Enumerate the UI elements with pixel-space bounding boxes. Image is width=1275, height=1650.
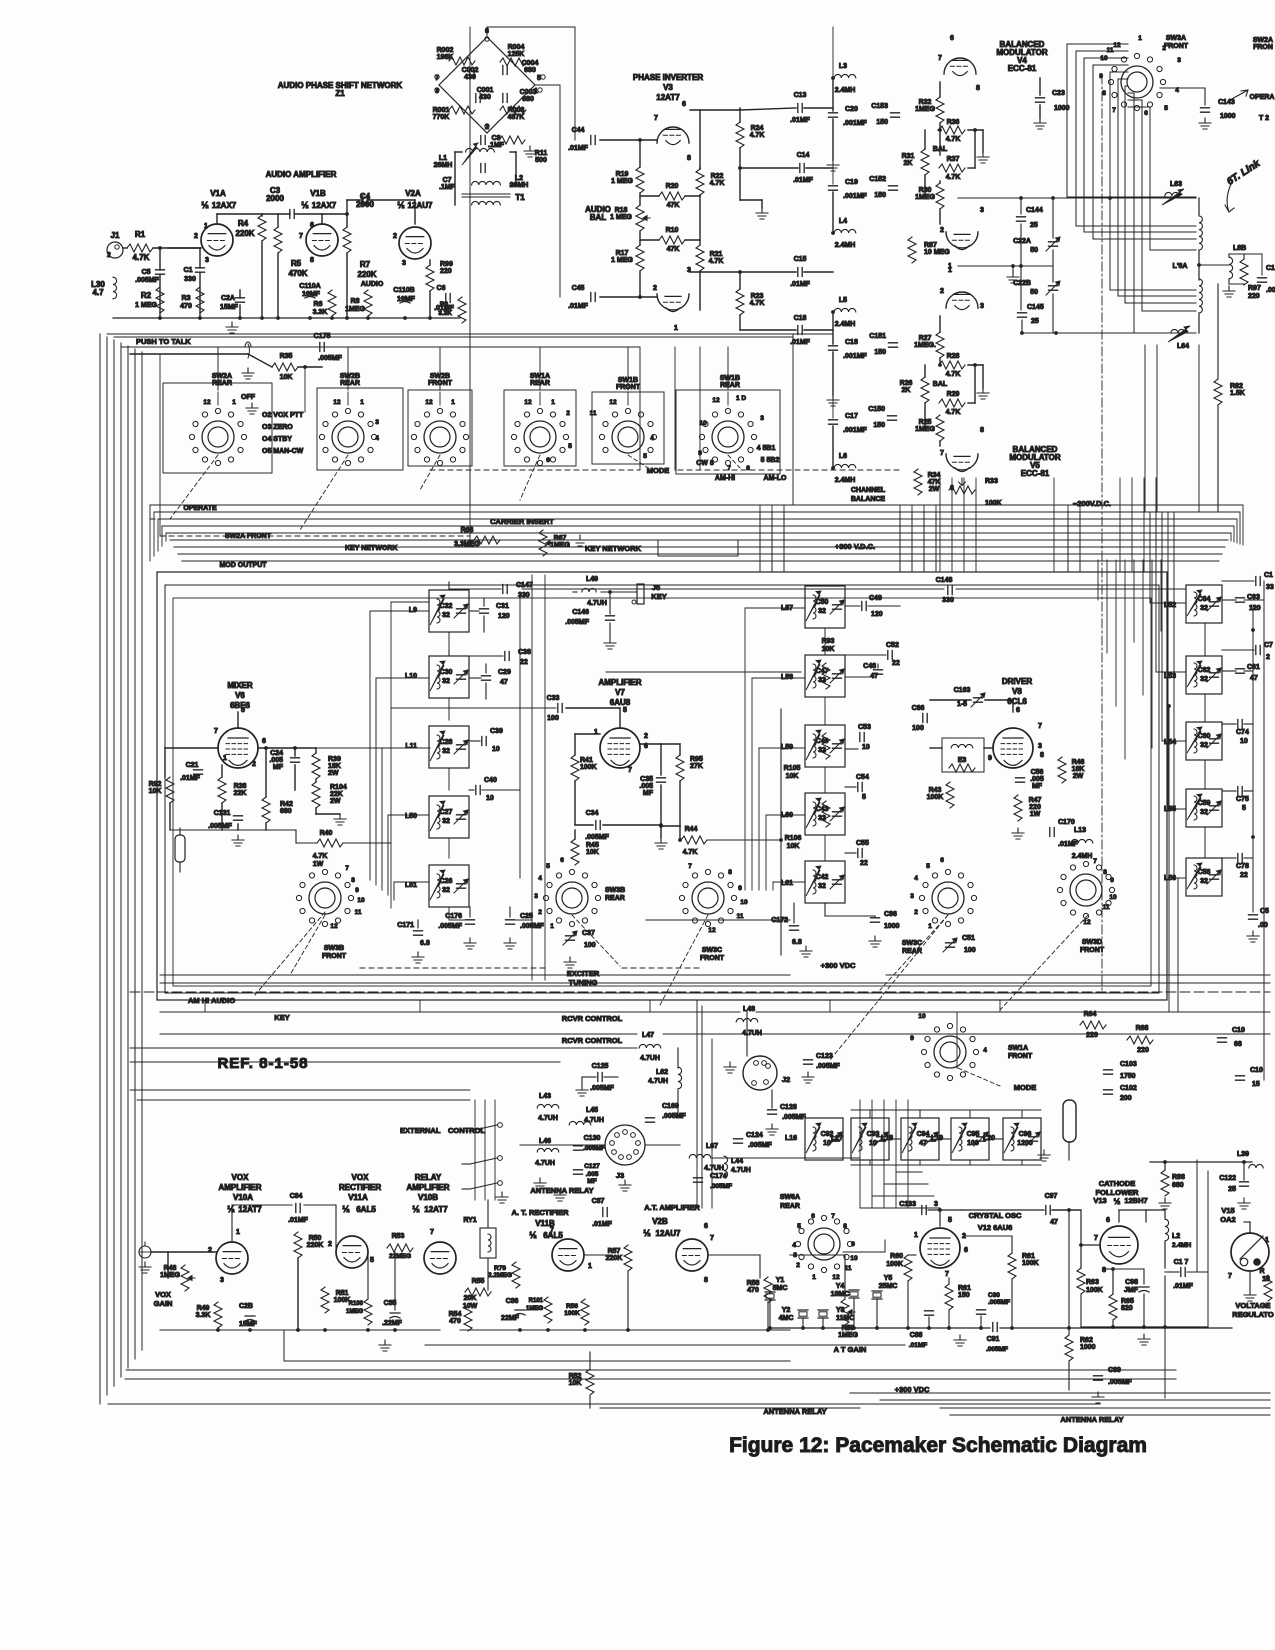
svg-text:5: 5 — [1164, 105, 1168, 112]
wire — [304, 367, 306, 412]
svg-text:2K: 2K — [904, 160, 913, 167]
triode V10A — [216, 1242, 248, 1274]
capacitor C79 — [1256, 646, 1260, 655]
svg-text:.00: .00 — [1266, 287, 1275, 294]
svg-text:C52: C52 — [886, 642, 899, 649]
wire bottom horiz stub — [884, 1183, 928, 1185]
svg-text:.005MF: .005MF — [662, 1113, 686, 1120]
svg-text:25: 25 — [1031, 318, 1039, 325]
svg-text:C31: C31 — [496, 603, 509, 610]
svg-text:15MF: 15MF — [239, 1321, 258, 1328]
socket J2 — [743, 1056, 777, 1090]
svg-text:V8: V8 — [1012, 687, 1022, 696]
svg-text:C2B: C2B — [239, 1303, 253, 1310]
svg-text:1MEG: 1MEG — [345, 306, 365, 313]
svg-text:R: R — [1259, 1268, 1264, 1275]
svg-text:10: 10 — [1109, 894, 1117, 901]
pentode V8 — [993, 728, 1033, 768]
resistor R61 — [1008, 1253, 1016, 1279]
wire far right vertical 1169 — [1168, 706, 1170, 1012]
capacitor C172 — [790, 926, 799, 930]
svg-text:47: 47 — [1250, 675, 1258, 682]
wire — [315, 808, 317, 814]
capacitor C85 — [390, 1313, 400, 1318]
bus bottom 3 — [125, 1378, 1176, 1380]
bus wire network — [174, 546, 1225, 548]
resistor R28 — [939, 361, 965, 369]
wire vertical mid — [1067, 505, 1069, 572]
svg-text:C103: C103 — [1120, 1061, 1137, 1068]
svg-text:4.7UH: 4.7UH — [538, 1115, 558, 1122]
bus wire vertical left — [127, 346, 129, 1368]
svg-text:150: 150 — [874, 349, 886, 356]
svg-text:8: 8 — [1040, 752, 1044, 759]
svg-text:C8: C8 — [492, 135, 501, 142]
svg-text:100K: 100K — [564, 1310, 580, 1317]
svg-text:2.2MEG: 2.2MEG — [488, 1272, 512, 1279]
capacitor C1 — [196, 268, 205, 272]
svg-text:V1B: V1B — [310, 189, 326, 198]
wire sw3c fan vertical — [744, 608, 746, 890]
svg-text:Y4: Y4 — [836, 1283, 845, 1290]
svg-text:10: 10 — [357, 897, 365, 904]
svg-text:L10: L10 — [405, 673, 417, 680]
ground R104 — [334, 814, 346, 825]
svg-text:.00: .00 — [1258, 922, 1268, 929]
pentode V12 — [920, 1228, 960, 1268]
wire vertical mid — [911, 505, 913, 572]
svg-text:12AX7: 12AX7 — [212, 201, 237, 210]
svg-text:T 2: T 2 — [1259, 115, 1269, 122]
svg-text:3: 3 — [980, 207, 984, 214]
svg-text:470K: 470K — [288, 269, 307, 278]
svg-text:4.7K: 4.7K — [133, 253, 150, 262]
wire to L8B — [1199, 264, 1229, 266]
relay coil RY1 — [488, 1234, 491, 1252]
svg-text:C95: C95 — [967, 1131, 980, 1138]
svg-text:1W: 1W — [313, 861, 324, 868]
wire sw3c fan stub — [759, 747, 805, 749]
wire L8B top — [1229, 253, 1244, 255]
svg-text:22K: 22K — [330, 791, 343, 798]
svg-text:220: 220 — [1137, 1047, 1149, 1054]
svg-text:AM HI AUDIO: AM HI AUDIO — [188, 996, 235, 1005]
svg-text:5: 5 — [1242, 805, 1246, 812]
tank L58 — [805, 655, 845, 697]
wire vertical 702 — [701, 1006, 703, 1208]
svg-text:6: 6 — [1106, 1217, 1110, 1224]
svg-text:8: 8 — [976, 85, 980, 92]
resistor R66 — [474, 536, 500, 544]
wire — [740, 167, 798, 169]
wire — [739, 108, 741, 122]
svg-text:.01MF: .01MF — [288, 1217, 309, 1224]
capacitor C7 — [481, 164, 485, 173]
svg-text:20K: 20K — [464, 1295, 477, 1302]
capacitor C52 — [888, 651, 892, 660]
svg-text:4.7K: 4.7K — [946, 136, 961, 143]
svg-text:REAR: REAR — [780, 1203, 800, 1210]
svg-text:V2A: V2A — [405, 189, 421, 198]
ground C146 — [604, 638, 616, 649]
svg-text:A. T. RECTIFIER: A. T. RECTIFIER — [511, 1208, 569, 1217]
svg-text:.005MF: .005MF — [1108, 1379, 1132, 1386]
svg-text:L9: L9 — [409, 607, 417, 614]
svg-text:.005: .005 — [639, 783, 653, 790]
inductor L49 — [582, 588, 596, 592]
svg-text:487K: 487K — [508, 114, 525, 121]
capacitor C17 — [829, 420, 838, 424]
svg-text:C130: C130 — [584, 1135, 601, 1142]
wire far right vertical 1178 — [1177, 878, 1179, 1012]
wire sw3c fan stub — [773, 881, 805, 883]
wire — [939, 130, 941, 155]
capacitor C48 — [874, 670, 883, 674]
svg-text:C74: C74 — [1236, 729, 1249, 736]
resistor R105 — [822, 733, 830, 759]
svg-text:3: 3 — [1177, 57, 1181, 64]
svg-text:7: 7 — [430, 1229, 434, 1236]
svg-text:.1MF: .1MF — [488, 142, 505, 149]
wire — [221, 765, 223, 777]
wire — [297, 1258, 299, 1330]
wire C97 to grid — [1052, 1209, 1081, 1211]
wire J3 right — [645, 1144, 680, 1146]
wire vertical mid — [923, 505, 925, 572]
svg-text:10: 10 — [492, 746, 500, 753]
svg-text:.005MF: .005MF — [986, 1346, 1008, 1353]
svg-text:.005: .005 — [269, 757, 283, 764]
wire — [469, 907, 471, 917]
svg-text:32: 32 — [818, 883, 826, 890]
svg-text:5: 5 — [797, 1223, 801, 1230]
svg-text:R001: R001 — [433, 107, 450, 114]
svg-text:C86: C86 — [884, 911, 897, 918]
wire — [237, 824, 239, 830]
svg-text:C59: C59 — [1198, 800, 1211, 807]
capacitor C66 — [923, 714, 927, 723]
wire — [968, 167, 975, 169]
resistor R9 — [458, 297, 466, 323]
capacitor C44 — [591, 136, 595, 145]
capacitor C004 — [503, 66, 507, 75]
wire vertical 391 — [390, 602, 392, 908]
svg-text:L11: L11 — [405, 743, 417, 750]
wire SW3A bundle — [1125, 86, 1196, 303]
svg-text:10: 10 — [850, 1255, 858, 1262]
wire sw3d fan vertical — [1161, 512, 1163, 741]
svg-text:L16: L16 — [785, 1135, 797, 1142]
wire sw3d fan vertical — [1173, 512, 1175, 878]
svg-text:O2 VOX PTT: O2 VOX PTT — [262, 412, 304, 419]
svg-text:1: 1 — [948, 267, 952, 274]
inductor L8A lower — [1199, 279, 1202, 313]
svg-text:4.7UH: 4.7UH — [640, 1055, 660, 1062]
wire C18 to column — [804, 329, 833, 331]
capacitor C75 — [1238, 787, 1242, 796]
wire right chain 3b — [1204, 760, 1206, 789]
wire — [832, 312, 834, 344]
dashed wiper — [290, 915, 325, 975]
wire to C84 — [232, 1204, 292, 1206]
svg-text:1: 1 — [451, 399, 455, 406]
svg-text:J5: J5 — [652, 583, 660, 592]
svg-text:10: 10 — [862, 744, 870, 751]
svg-text:11MC: 11MC — [836, 1315, 854, 1322]
switch enclosure frame — [504, 390, 576, 466]
wire interstage 4 — [606, 671, 801, 673]
crystal Y4 — [849, 1290, 859, 1298]
wire bottom horiz stub — [872, 1195, 934, 1197]
tank L10 — [429, 656, 469, 698]
svg-text:2: 2 — [644, 733, 648, 740]
resistor R21 — [696, 245, 704, 271]
svg-text:RCVR CONTROL: RCVR CONTROL — [562, 1036, 623, 1045]
resistor R100 — [364, 1299, 372, 1325]
wire — [469, 610, 479, 612]
tank L59 — [805, 725, 845, 767]
svg-text:C35: C35 — [640, 776, 653, 783]
svg-text:C89: C89 — [1108, 1367, 1121, 1374]
tank L52 — [1186, 585, 1222, 623]
svg-text:2000: 2000 — [356, 200, 374, 209]
svg-text:R61: R61 — [1022, 1253, 1035, 1260]
crystal Y5 — [872, 1291, 882, 1299]
svg-text:6: 6 — [310, 222, 314, 229]
wire L8A bottom — [1198, 313, 1200, 333]
resistor R004 — [500, 58, 526, 66]
wire L8B bottom — [1229, 283, 1244, 285]
wire vertical right mid — [1133, 560, 1135, 642]
wire drop to rcvr — [419, 1000, 421, 1012]
svg-text:6: 6 — [546, 457, 550, 464]
bus +300 bottom — [850, 1392, 1270, 1394]
wire bottom horiz stub — [896, 1171, 922, 1173]
resistor R36 — [939, 126, 965, 134]
resistor R39 — [312, 753, 320, 779]
capacitor C74 — [1238, 720, 1242, 729]
wire SW3A bundle — [1093, 65, 1196, 239]
svg-text:KEY NETWORK: KEY NETWORK — [345, 545, 397, 552]
svg-text:C143: C143 — [1218, 99, 1235, 106]
capacitor C18 — [829, 346, 838, 350]
svg-text:12: 12 — [333, 399, 341, 406]
shielded lead — [175, 835, 185, 862]
dashed wiper — [255, 912, 325, 995]
svg-text:L2: L2 — [1172, 1233, 1180, 1240]
dashed wiper — [830, 915, 948, 1060]
bus bottom AT — [425, 1344, 905, 1346]
resistor R79 — [512, 1262, 520, 1288]
wire vertical to bus — [1144, 345, 1146, 512]
wire drop to rcvr — [649, 1000, 651, 1012]
wire to C143 — [1160, 87, 1205, 89]
svg-text:1: 1 — [674, 325, 678, 332]
inductor L8B — [1229, 257, 1233, 279]
svg-text:C125: C125 — [592, 1063, 609, 1070]
svg-text:120: 120 — [498, 613, 510, 620]
svg-text:C37: C37 — [582, 930, 595, 937]
switch enclosure frame — [163, 383, 272, 473]
ground bus osc — [770, 1327, 990, 1329]
svg-text:1MEG: 1MEG — [346, 1309, 363, 1315]
svg-text:REGULATO: REGULATO — [1232, 1310, 1274, 1319]
wire — [469, 470, 471, 545]
svg-text:R37: R37 — [947, 156, 960, 163]
svg-text:½: ½ — [301, 200, 309, 210]
svg-text:2: 2 — [940, 288, 944, 295]
tube V15 — [1231, 1233, 1269, 1271]
tank L18 — [901, 1118, 939, 1160]
svg-text:R36: R36 — [947, 119, 960, 126]
switch SW1B rear — [712, 421, 744, 453]
svg-text:2: 2 — [328, 1241, 332, 1248]
jack J5 — [637, 584, 644, 604]
svg-text:7: 7 — [727, 465, 731, 472]
ground ext1 — [534, 1178, 546, 1189]
wire — [845, 748, 858, 750]
wire V11B to R57 — [584, 1254, 612, 1256]
wire mid chain 4 — [824, 835, 826, 861]
svg-text:1 MEG: 1 MEG — [611, 257, 633, 264]
tank L11 — [429, 726, 469, 768]
wire vertical mid — [783, 505, 785, 572]
svg-text:120: 120 — [1249, 605, 1261, 612]
svg-text:R92: R92 — [149, 781, 162, 788]
switch SW1A rear — [524, 421, 556, 453]
tank L60 — [805, 793, 845, 835]
svg-text:12: 12 — [425, 399, 433, 406]
wire SW3A bundle — [1128, 107, 1196, 250]
svg-text:C90: C90 — [988, 1292, 1000, 1299]
wire — [679, 781, 681, 826]
svg-text:6: 6 — [262, 738, 266, 745]
svg-text:10K: 10K — [280, 374, 293, 381]
svg-text:C1 7: C1 7 — [1174, 1259, 1189, 1266]
wire R61b down — [948, 1310, 950, 1328]
wire L62 up — [677, 1048, 679, 1068]
inductor L47 — [639, 1044, 661, 1048]
svg-text:L62: L62 — [656, 1069, 668, 1076]
wire bridge top — [487, 26, 575, 28]
wire switch stem up — [347, 347, 349, 390]
svg-text:1MEG: 1MEG — [160, 1272, 180, 1279]
capacitor C34 — [596, 821, 600, 830]
wire — [262, 213, 290, 215]
wire vertical drop — [783, 512, 785, 572]
wire — [574, 830, 576, 839]
svg-text:125K: 125K — [508, 51, 525, 58]
wire — [294, 765, 296, 790]
svg-text:½: ½ — [529, 1230, 537, 1240]
svg-text:V12 6AU6: V12 6AU6 — [978, 1223, 1013, 1232]
svg-text:11: 11 — [737, 913, 744, 920]
svg-text:1.5K: 1.5K — [1230, 390, 1245, 397]
svg-text:REAR: REAR — [720, 382, 740, 389]
capacitor C5 — [156, 270, 165, 274]
wire bottom vertical long — [871, 1100, 873, 1208]
svg-text:1750: 1750 — [1120, 1073, 1136, 1080]
wire — [346, 214, 348, 227]
wire — [1222, 857, 1236, 859]
wire — [217, 1328, 219, 1330]
wire J2 up — [746, 1012, 748, 1056]
wire vertical right mid — [1097, 560, 1099, 600]
wire — [939, 441, 941, 446]
svg-text:.001MF: .001MF — [843, 193, 867, 200]
diode V11A — [336, 1236, 368, 1268]
resistor R92 — [166, 777, 174, 803]
svg-text:L1: L1 — [439, 155, 447, 162]
svg-text:2.4MH: 2.4MH — [835, 242, 856, 249]
wire switch stem up — [217, 347, 219, 390]
wire — [930, 699, 971, 701]
svg-text:6: 6 — [964, 1247, 968, 1254]
svg-text:MIXER: MIXER — [227, 681, 253, 690]
wire SW3A bundle — [1076, 51, 1196, 226]
svg-text:47: 47 — [919, 1140, 927, 1147]
svg-text:.005MF: .005MF — [816, 1063, 840, 1070]
svg-text:C28: C28 — [440, 739, 453, 746]
svg-text:5 5B2: 5 5B2 — [761, 457, 780, 464]
wire — [455, 151, 462, 153]
resistor R64 — [1080, 1021, 1106, 1029]
svg-text:RELAY: RELAY — [415, 1173, 442, 1182]
wire vertical crosser — [1119, 478, 1121, 572]
wire — [661, 825, 680, 827]
wire — [582, 1076, 596, 1078]
svg-text:9: 9 — [355, 887, 359, 894]
svg-text:L50: L50 — [405, 813, 417, 820]
svg-text:J3: J3 — [616, 1171, 624, 1180]
svg-text:C004: C004 — [522, 60, 539, 67]
svg-text:R19: R19 — [616, 171, 629, 178]
svg-text:680: 680 — [524, 67, 536, 74]
svg-text:−200V.D.C.: −200V.D.C. — [1073, 499, 1111, 508]
svg-text:CRYSTAL OSC: CRYSTAL OSC — [969, 1211, 1022, 1220]
wire sw3d fan stub — [1174, 877, 1186, 879]
svg-text:SW2A: SW2A — [1253, 37, 1273, 44]
svg-text:O5 MAN-CW: O5 MAN-CW — [262, 448, 304, 455]
capacitor C86b — [515, 1310, 525, 1315]
resistor R65 — [1109, 1294, 1117, 1320]
bus wire network — [162, 525, 1234, 527]
capacitor C125 — [598, 1073, 602, 1082]
wire — [739, 272, 741, 289]
svg-text:8: 8 — [1102, 1267, 1106, 1274]
svg-text:2: 2 — [566, 410, 570, 417]
svg-text:AM-HI: AM-HI — [715, 475, 735, 482]
svg-text:OPERATE: OPERATE — [183, 505, 217, 512]
ground bus AT — [460, 1329, 790, 1331]
svg-text:V6: V6 — [235, 691, 245, 700]
wire vertical 781 — [780, 709, 782, 955]
svg-text:FRON: FRON — [1253, 44, 1273, 51]
svg-text:L44: L44 — [731, 1158, 743, 1165]
tank L57 — [805, 586, 845, 628]
svg-text:DRIVER: DRIVER — [1002, 677, 1032, 686]
svg-text:4.7UH: 4.7UH — [648, 1078, 668, 1085]
svg-text:1: 1 — [588, 1263, 592, 1270]
svg-text:6: 6 — [1016, 707, 1020, 714]
resistor R97 — [1240, 259, 1248, 285]
wire — [968, 402, 975, 404]
svg-text:L49: L49 — [586, 576, 598, 583]
svg-text:C19: C19 — [845, 179, 858, 186]
svg-text:100: 100 — [547, 715, 559, 722]
svg-text:68: 68 — [1234, 1041, 1242, 1048]
svg-text:L43: L43 — [539, 1093, 551, 1100]
